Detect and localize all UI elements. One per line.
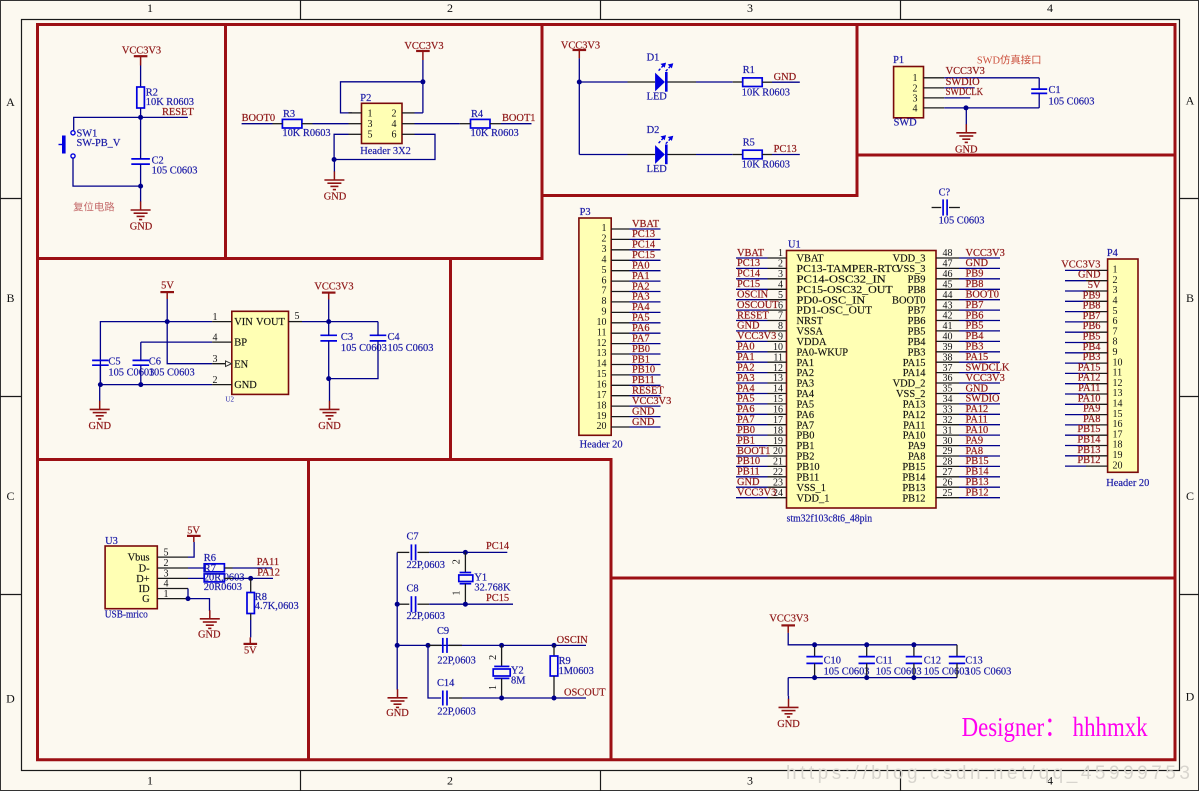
svg-text:18: 18 — [597, 400, 607, 411]
svg-text:RESET: RESET — [162, 107, 194, 118]
svg-text:PA10: PA10 — [966, 425, 989, 436]
svg-text:3: 3 — [602, 244, 607, 255]
wire net PA7 to U1 pin 17 — [736, 415, 768, 426]
svg-text:PA7: PA7 — [797, 420, 815, 431]
pin D2 cathode — [668, 154, 697, 156]
svg-text:32.768K: 32.768K — [474, 582, 511, 593]
wire VCC3V3 to top rail — [788, 633, 957, 645]
pin 5 — [157, 556, 188, 558]
P3 pin 18 — [597, 400, 630, 411]
resistor R7 — [204, 563, 245, 592]
row labels left — [6, 95, 15, 706]
wire net PB11 to U1 pin 22 — [736, 467, 768, 478]
svg-text:16: 16 — [597, 380, 607, 391]
P4 pin 10 — [1086, 357, 1123, 368]
svg-text:43: 43 — [943, 300, 953, 311]
right tick dividers — [1180, 199, 1199, 595]
svg-text:22P,0603: 22P,0603 — [437, 656, 475, 667]
svg-text:PA1: PA1 — [737, 352, 755, 363]
wire C14 branch — [428, 645, 441, 698]
pin 3 — [157, 577, 188, 579]
svg-text:PB15: PB15 — [966, 456, 989, 467]
wire row1 to D1 — [579, 81, 627, 83]
wire pin4 row — [944, 107, 1039, 109]
svg-text:VOUT: VOUT — [256, 317, 286, 328]
wire net PC15 to U1 pin 4 — [736, 279, 768, 290]
svg-text:PB10: PB10 — [737, 456, 760, 467]
svg-text:5: 5 — [778, 290, 783, 301]
net label BOOT0 — [242, 113, 275, 124]
power symbol 5V (usb bottom) — [244, 637, 258, 656]
pin 2 — [157, 567, 188, 569]
wire G to ground — [188, 599, 210, 611]
svg-text:B: B — [1186, 291, 1194, 305]
svg-text:38: 38 — [943, 352, 953, 363]
resistor R2 — [137, 87, 194, 108]
wire net PB1 from P3 pin 14 — [630, 354, 661, 365]
wire switch to bottom node — [73, 158, 141, 186]
wire net OSCIN to U1 pin 5 — [736, 290, 769, 301]
svg-text:2: 2 — [213, 375, 218, 386]
column labels top — [147, 1, 1053, 15]
wire R2 to node RESET — [140, 108, 142, 117]
svg-text:VCC3V3: VCC3V3 — [966, 373, 1005, 384]
wire net GND to U1 pin 8 — [736, 321, 768, 332]
wire net PB6 from U1 pin 42 — [959, 310, 1000, 321]
wire net PB8 to P4 pin 5 — [1065, 301, 1101, 312]
pin 2 — [402, 112, 415, 114]
wire net PB5 from U1 pin 41 — [959, 321, 1000, 332]
wire net PB4 to P4 pin 9 — [1065, 342, 1101, 353]
capacitor C3 — [320, 332, 386, 354]
svg-text:2: 2 — [452, 559, 463, 564]
svg-text:20: 20 — [1113, 460, 1123, 471]
svg-text:5V: 5V — [161, 280, 174, 291]
wire VCC3V3 to R2 — [140, 66, 142, 88]
capacitor C10 — [806, 645, 869, 678]
P4 pin 5 — [1086, 306, 1118, 317]
wire net PB4 from U1 pin 40 — [959, 331, 1000, 342]
svg-text:U2: U2 — [225, 396, 234, 404]
pin D1 cathode — [668, 81, 697, 83]
svg-text:PB9: PB9 — [908, 274, 926, 285]
svg-text:17: 17 — [597, 390, 607, 401]
svg-text:15: 15 — [597, 369, 607, 380]
svg-text:VSS_2: VSS_2 — [896, 389, 925, 400]
U1 pin 24 VDD_1 — [768, 488, 830, 504]
junction — [395, 643, 400, 648]
svg-text:105 C0603: 105 C0603 — [939, 216, 985, 227]
svg-text:PA0-WKUP: PA0-WKUP — [797, 347, 849, 358]
wire R6 to PA11 — [224, 567, 232, 569]
svg-text:32: 32 — [943, 415, 953, 426]
svg-text:PB11: PB11 — [797, 472, 820, 483]
svg-text:LED: LED — [647, 164, 668, 175]
net label PC13 (led row2) — [772, 144, 800, 155]
svg-text:PB0: PB0 — [797, 431, 815, 442]
svg-text:PC15: PC15 — [737, 279, 760, 290]
P3 pin 3 — [602, 244, 630, 255]
svg-text:4: 4 — [392, 119, 397, 130]
U1 pin 22 PB11 — [768, 467, 820, 483]
svg-text:3: 3 — [213, 354, 218, 365]
wire R8 down — [250, 614, 252, 638]
block border bottom — [36, 758, 1177, 761]
svg-text:PC14: PC14 — [737, 269, 761, 280]
svg-text:PC15: PC15 — [632, 250, 655, 261]
svg-text:PA12: PA12 — [903, 410, 926, 421]
block border right edge — [1174, 23, 1177, 761]
pin 2 — [212, 384, 232, 386]
wire net GND from P3 pin 20 — [630, 417, 661, 428]
svg-text:BP: BP — [234, 338, 247, 349]
svg-text:2: 2 — [447, 774, 453, 788]
svg-text:22P,0603: 22P,0603 — [407, 611, 445, 622]
svg-text:PA7: PA7 — [632, 333, 650, 344]
P4 pin 2 — [1086, 275, 1118, 286]
P3 pin 7 — [602, 286, 630, 297]
U1 pin 37 PA14 — [903, 363, 959, 379]
wire net PA3 to U1 pin 13 — [736, 373, 768, 384]
svg-text:Header 3X2: Header 3X2 — [360, 146, 411, 157]
wire C4 loop — [329, 322, 378, 379]
svg-text:PB8: PB8 — [966, 279, 984, 290]
svg-text:PA5: PA5 — [797, 400, 815, 411]
pin 4 — [212, 341, 232, 343]
svg-text:EN: EN — [234, 359, 248, 370]
U1 pin 34 PA13 — [903, 394, 959, 410]
P4 pin 8 — [1086, 337, 1118, 348]
svg-text:P2: P2 — [360, 93, 371, 104]
pin 3 — [349, 123, 362, 125]
svg-text:25: 25 — [943, 488, 953, 499]
svg-text:39: 39 — [943, 342, 953, 353]
wire net RESET to U1 pin 7 — [736, 310, 769, 321]
svg-text:PA1: PA1 — [797, 358, 815, 369]
U1 pin 45 PB8 — [908, 280, 959, 296]
svg-text:GND: GND — [632, 406, 655, 417]
wire net PA7 from P3 pin 12 — [630, 333, 661, 344]
svg-text:1: 1 — [602, 223, 607, 234]
svg-text:PA15: PA15 — [903, 358, 926, 369]
svg-text:1: 1 — [452, 591, 463, 596]
svg-text:C13: C13 — [965, 655, 982, 666]
U1 pin 46 PB9 — [908, 269, 959, 285]
U1 pin 32 PA11 — [903, 415, 959, 431]
capacitor C8 — [397, 583, 445, 622]
wire net BOOT0 from U1 pin 44 — [959, 290, 1000, 301]
pin 5 — [289, 321, 303, 323]
svg-text:GND: GND — [324, 192, 347, 203]
svg-text:105 C0603: 105 C0603 — [388, 343, 434, 354]
svg-text:42: 42 — [943, 311, 953, 322]
junction — [911, 642, 916, 647]
wire net PA4 from P3 pin 9 — [630, 302, 661, 313]
U1 pin 31 PA10 — [903, 425, 959, 441]
pin D1 anode — [628, 81, 656, 83]
svg-text:2: 2 — [602, 234, 607, 245]
ground (crystal) — [386, 689, 409, 719]
svg-text:48: 48 — [943, 248, 953, 259]
U1 pin 23 VSS_1 — [768, 477, 826, 493]
net label GND (led row1) — [772, 72, 800, 83]
svg-text:GND: GND — [88, 421, 111, 432]
wire net PA5 to U1 pin 15 — [736, 394, 768, 405]
P4 pin 9 — [1086, 347, 1118, 358]
svg-text:4.7K,0603: 4.7K,0603 — [255, 601, 299, 612]
wire OSCIN row — [397, 644, 586, 646]
svg-text:13: 13 — [773, 373, 783, 384]
ground (swd) — [955, 108, 978, 155]
junction — [248, 576, 253, 581]
wire junction to pin2 — [422, 82, 424, 113]
U1 pin 17 PA7 — [768, 415, 815, 431]
U1 pin 36 VDD_2 — [893, 373, 959, 389]
wire Vbus to 5V — [188, 542, 194, 557]
wire net PB5 to P4 pin 8 — [1065, 332, 1101, 343]
svg-text:GND: GND — [386, 708, 409, 719]
svg-text:5: 5 — [368, 130, 373, 141]
crystal Y1 32.768K — [452, 552, 511, 604]
P4 pin 16 — [1086, 419, 1123, 430]
pin 4 — [157, 588, 188, 590]
svg-text:PA5: PA5 — [632, 313, 650, 324]
svg-text:B: B — [6, 291, 14, 305]
junction — [326, 319, 331, 324]
svg-text:PA0: PA0 — [737, 342, 755, 353]
svg-text:PA12: PA12 — [257, 567, 280, 578]
header P1 SWD — [893, 55, 923, 128]
U1 pin 14 PA4 — [768, 384, 815, 400]
svg-text:31: 31 — [943, 425, 953, 436]
svg-text:OSCOUT: OSCOUT — [737, 300, 779, 311]
block border USB/crystal divider — [307, 458, 310, 761]
svg-text:C: C — [1186, 489, 1194, 503]
svg-text:PA4: PA4 — [632, 302, 650, 313]
svg-text:12: 12 — [773, 363, 783, 374]
pin 1 — [157, 598, 188, 600]
resistor R9 — [550, 645, 594, 698]
svg-text:105 C0603: 105 C0603 — [924, 666, 970, 677]
junction — [463, 602, 468, 607]
power symbol VCC3V3 (boot) — [404, 41, 443, 60]
U1 pin 42 PB6 — [908, 311, 959, 327]
net label SWDCLK — [944, 87, 983, 98]
capacitor C4 — [370, 332, 434, 354]
svg-text:PB13: PB13 — [902, 483, 925, 494]
left tick dividers — [0, 199, 22, 595]
svg-text:VBAT: VBAT — [632, 219, 660, 230]
wire net GND to P4 pin 2 — [1065, 270, 1101, 281]
svg-text:GND: GND — [318, 421, 341, 432]
junction — [165, 319, 170, 324]
wire net PA6 from P3 pin 11 — [630, 323, 661, 334]
junction — [332, 157, 337, 162]
svg-text:SWDCLK: SWDCLK — [946, 87, 984, 98]
resistor R5 — [742, 138, 790, 171]
U1 pin 30 PA9 — [908, 436, 959, 452]
wire net PB1 to U1 pin 19 — [736, 435, 768, 446]
P3 pin 17 — [597, 390, 630, 401]
block border power right edge — [449, 257, 452, 461]
switch SW1 SW-PB_V — [59, 129, 121, 158]
wire net GND from P3 pin 19 — [630, 406, 661, 417]
connector U3 USB-mrico — [105, 536, 158, 620]
svg-text:VCC3V3: VCC3V3 — [737, 488, 776, 499]
svg-text:PA2: PA2 — [737, 362, 755, 373]
P3 pin 6 — [602, 275, 630, 286]
junction — [138, 382, 143, 387]
svg-text:2: 2 — [488, 655, 499, 660]
wire net PA0 to U1 pin 10 — [736, 342, 768, 353]
svg-text:C3: C3 — [341, 332, 353, 343]
svg-text:R3: R3 — [283, 109, 295, 120]
svg-text:33: 33 — [943, 405, 953, 416]
svg-text:PA3: PA3 — [632, 292, 650, 303]
wire net VCC3V3 to P4 pin 1 — [1061, 259, 1100, 270]
wire pin5 to gnd node — [334, 134, 348, 159]
capacitor C5 — [92, 357, 154, 379]
svg-text:D2: D2 — [647, 125, 660, 136]
wire net PB9 from U1 pin 46 — [959, 269, 1000, 280]
capacitor C7 — [397, 532, 445, 572]
LED D2 — [647, 125, 673, 175]
svg-text:PA2: PA2 — [797, 368, 815, 379]
svg-text:PB0: PB0 — [632, 344, 650, 355]
wire net RESET from P3 pin 17 — [630, 386, 665, 397]
svg-text:105 C0603: 105 C0603 — [108, 367, 154, 378]
svg-text:OSCIN: OSCIN — [557, 635, 589, 646]
wire net PA2 from P3 pin 7 — [630, 281, 661, 292]
resistor R3 — [282, 109, 330, 139]
P3 pin 5 — [602, 265, 630, 276]
U1 pin 47 VSS_3 — [896, 259, 959, 275]
pin 1 — [349, 112, 362, 114]
pin R5 left — [733, 154, 743, 156]
svg-text:3: 3 — [747, 1, 753, 15]
wire net GND from U1 pin 35 — [959, 383, 1000, 394]
svg-text:VCC3V3: VCC3V3 — [966, 248, 1005, 259]
junction — [138, 184, 143, 189]
wire EN loop — [167, 322, 212, 364]
pin D2 anode — [628, 154, 656, 156]
P3 pin 8 — [602, 296, 630, 307]
wire net BOOT1 to U1 pin 20 — [736, 446, 770, 457]
wire net PA12 from U1 pin 33 — [959, 404, 1000, 415]
P4 pin 3 — [1086, 285, 1118, 296]
svg-text:22: 22 — [773, 467, 783, 478]
svg-text:PA6: PA6 — [632, 323, 650, 334]
svg-text:VCC3V3: VCC3V3 — [769, 614, 808, 625]
resistor R6 — [204, 553, 225, 572]
svg-text:19: 19 — [597, 411, 607, 422]
svg-text:PC13: PC13 — [632, 229, 655, 240]
P3 pin 19 — [597, 411, 630, 422]
svg-text:5V: 5V — [187, 525, 200, 536]
net label SWDIO — [944, 77, 980, 88]
LED D1 — [647, 52, 673, 102]
svg-text:SWDIO: SWDIO — [946, 77, 981, 88]
svg-text:17: 17 — [773, 415, 783, 426]
junction — [552, 696, 557, 701]
svg-text:R4: R4 — [471, 109, 484, 120]
svg-text:PB10: PB10 — [797, 462, 820, 473]
wire net PA6 to U1 pin 16 — [736, 404, 768, 415]
header P2 Header 3X2 — [360, 93, 411, 157]
svg-text:GND: GND — [966, 383, 989, 394]
U1 pin 16 PA6 — [768, 405, 815, 421]
U1 pin 48 VDD_3 — [893, 248, 959, 264]
wire net PB15 to P4 pin 17 — [1065, 424, 1101, 435]
wire net PA1 to U1 pin 11 — [736, 352, 768, 363]
regulator U2 — [225, 311, 288, 403]
wire junction to R8 — [250, 578, 252, 592]
capacitor C11 — [859, 645, 922, 678]
svg-text:47: 47 — [943, 259, 953, 270]
svg-text:PA3: PA3 — [797, 379, 815, 390]
svg-text:GND: GND — [198, 630, 221, 641]
wire net PB0 to U1 pin 18 — [736, 425, 768, 436]
wire net PC13 to U1 pin 2 — [736, 258, 768, 269]
P4 pin 20 — [1086, 460, 1123, 471]
resistor R8 — [247, 592, 299, 614]
junction — [138, 115, 143, 120]
wire net PA11 from U1 pin 32 — [959, 415, 1000, 426]
svg-text:PC15: PC15 — [486, 593, 509, 604]
svg-text:C12: C12 — [924, 655, 941, 666]
svg-text:PB8: PB8 — [908, 285, 926, 296]
block border caps top — [610, 577, 1177, 580]
U1 pin 35 VSS_2 — [896, 384, 959, 400]
svg-text:VDDA: VDDA — [797, 337, 828, 348]
pin 5 — [349, 133, 362, 135]
wire net PA10 to P4 pin 14 — [1065, 393, 1101, 404]
ground (regulator right) — [318, 379, 341, 432]
svg-text:PB1: PB1 — [632, 354, 650, 365]
svg-text:PB1: PB1 — [737, 435, 755, 446]
svg-text:Vbus: Vbus — [128, 553, 150, 564]
U1 pin 12 PA2 — [768, 363, 815, 379]
svg-text:GND: GND — [234, 380, 257, 391]
svg-text:1M0603: 1M0603 — [559, 666, 594, 677]
svg-text:VCC3V3: VCC3V3 — [946, 66, 985, 77]
svg-text:https://blog.csdn.net/qq_45999: https://blog.csdn.net/qq_45999753 — [786, 763, 1190, 784]
svg-text:OSCOUT: OSCOUT — [564, 687, 606, 698]
junction — [864, 675, 869, 680]
wire D- to R6 — [188, 567, 204, 569]
svg-text:105 C0603: 105 C0603 — [341, 343, 387, 354]
svg-text:5V: 5V — [244, 645, 257, 656]
svg-text:PA9: PA9 — [966, 435, 984, 446]
wire net PA0 from P3 pin 5 — [630, 261, 661, 272]
wire D+ to R7 — [188, 577, 204, 579]
svg-text:Designer： hhhmxk: Designer： hhhmxk — [962, 712, 1148, 742]
capacitor C1 — [1031, 85, 1094, 107]
svg-text:105 C0603: 105 C0603 — [965, 666, 1011, 677]
U1 pin 39 PB3 — [908, 342, 959, 358]
svg-text:PB11: PB11 — [737, 467, 760, 478]
svg-text:19: 19 — [773, 436, 783, 447]
svg-text:PB6: PB6 — [908, 316, 926, 327]
svg-text:12: 12 — [597, 338, 607, 349]
svg-text:D: D — [6, 692, 15, 706]
wire net PA8 to P4 pin 16 — [1065, 414, 1101, 425]
block border LED/SWD divider — [856, 23, 859, 197]
junction — [186, 596, 191, 601]
pin 6 — [402, 133, 415, 135]
wire net PB9 to P4 pin 4 — [1065, 290, 1101, 301]
P4 pin 12 — [1086, 378, 1123, 389]
